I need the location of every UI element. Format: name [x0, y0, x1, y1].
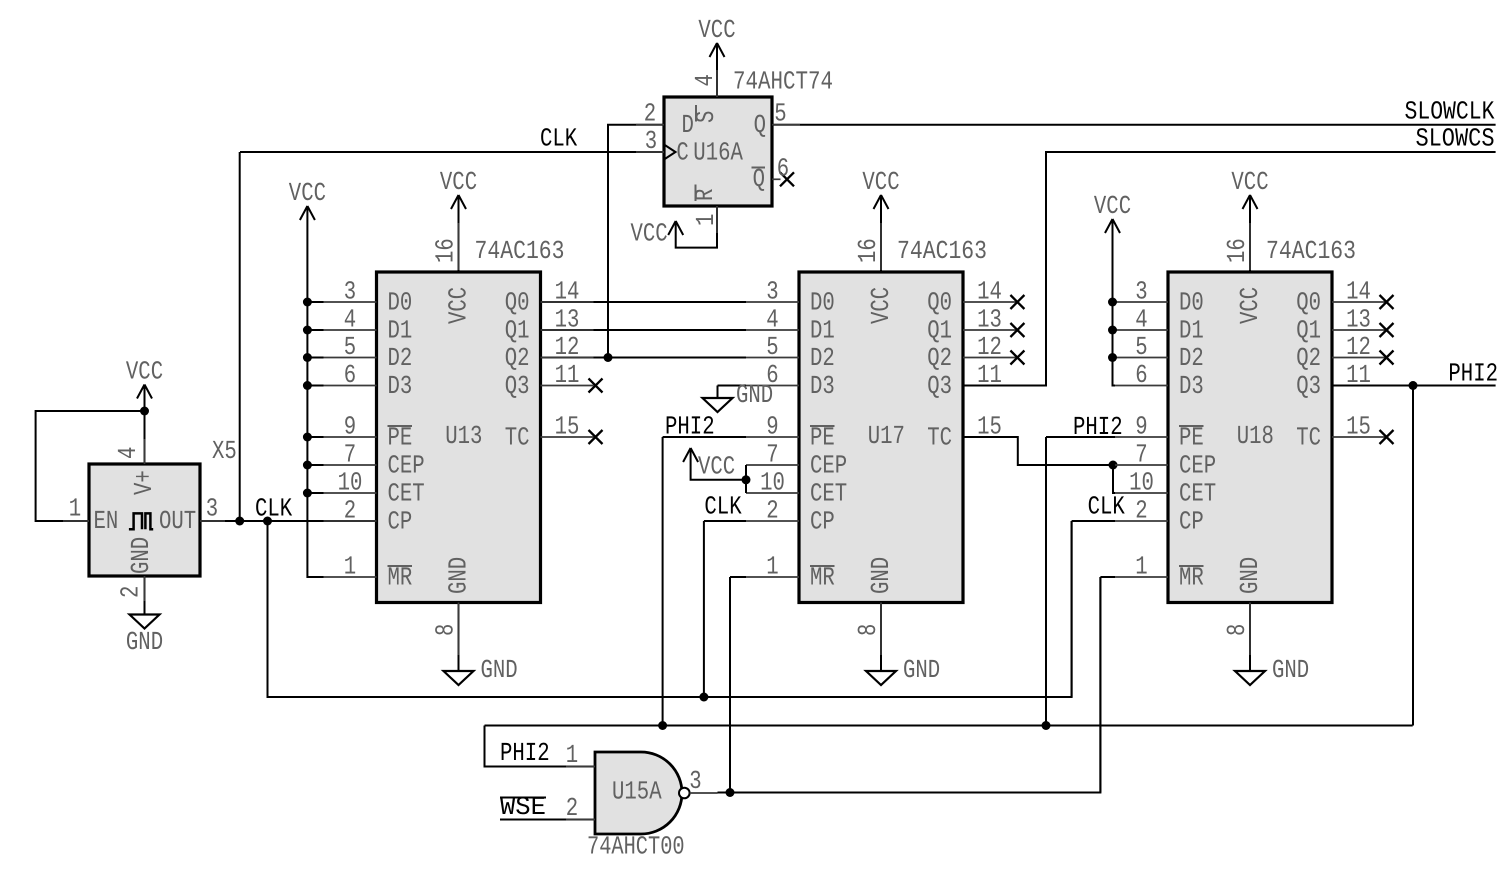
svg-text:SLOWCS: SLOWCS — [1415, 124, 1494, 154]
svg-text:6: 6 — [777, 153, 789, 183]
svg-text:Q2: Q2 — [505, 343, 530, 373]
svg-text:D1: D1 — [1179, 315, 1204, 345]
svg-text:4: 4 — [766, 305, 778, 335]
svg-text:CEP: CEP — [810, 450, 847, 480]
svg-text:6: 6 — [1135, 360, 1147, 390]
svg-text:VCC: VCC — [862, 167, 899, 197]
svg-text:TC: TC — [927, 422, 952, 452]
svg-text:CLK: CLK — [255, 494, 293, 524]
svg-text:74AHCT74: 74AHCT74 — [733, 67, 833, 97]
svg-text:Q0: Q0 — [505, 287, 530, 317]
svg-text:GND: GND — [481, 655, 518, 685]
svg-text:74AC163: 74AC163 — [475, 236, 565, 266]
svg-text:D3: D3 — [810, 371, 835, 401]
svg-text:D1: D1 — [810, 315, 835, 345]
svg-text:SLOWCLK: SLOWCLK — [1404, 97, 1494, 127]
svg-text:1: 1 — [344, 552, 356, 582]
svg-text:10: 10 — [1129, 468, 1154, 498]
svg-text:VCC: VCC — [444, 287, 474, 324]
svg-text:TC: TC — [1296, 422, 1321, 452]
svg-text:CP: CP — [810, 506, 835, 536]
svg-text:D2: D2 — [1179, 343, 1204, 373]
svg-text:Q1: Q1 — [1296, 315, 1321, 345]
svg-text:Q3: Q3 — [1296, 371, 1321, 401]
svg-text:GND: GND — [126, 537, 156, 574]
svg-text:1: 1 — [766, 552, 778, 582]
svg-text:5: 5 — [774, 99, 786, 129]
svg-text:16: 16 — [431, 238, 461, 263]
svg-text:2: 2 — [644, 99, 656, 129]
svg-text:D0: D0 — [810, 287, 835, 317]
svg-text:4: 4 — [1135, 305, 1147, 335]
svg-text:7: 7 — [766, 440, 778, 470]
svg-text:GND: GND — [444, 557, 474, 594]
svg-text:VCC: VCC — [126, 357, 163, 387]
svg-text:16: 16 — [853, 238, 883, 263]
svg-text:U15A: U15A — [612, 777, 662, 807]
svg-text:3: 3 — [1135, 277, 1147, 307]
svg-text:4: 4 — [344, 305, 356, 335]
svg-text:8: 8 — [1222, 624, 1252, 636]
svg-text:2: 2 — [344, 496, 356, 526]
svg-text:PHI2: PHI2 — [665, 412, 715, 442]
svg-text:Q0: Q0 — [927, 287, 952, 317]
svg-text:VCC: VCC — [1235, 287, 1265, 324]
svg-text:Q3: Q3 — [927, 371, 952, 401]
svg-text:Q: Q — [754, 110, 766, 140]
svg-text:3: 3 — [766, 277, 778, 307]
svg-text:8: 8 — [853, 624, 883, 636]
svg-text:CEP: CEP — [388, 450, 425, 480]
svg-text:1: 1 — [1135, 552, 1147, 582]
svg-text:6: 6 — [344, 360, 356, 390]
svg-text:2: 2 — [566, 793, 578, 823]
svg-text:C: C — [676, 137, 688, 167]
svg-text:74AHCT00: 74AHCT00 — [587, 832, 685, 862]
svg-text:GND: GND — [126, 627, 163, 657]
svg-text:VCC: VCC — [440, 167, 477, 197]
svg-text:74AC163: 74AC163 — [1266, 236, 1356, 266]
svg-text:V+: V+ — [129, 470, 159, 495]
svg-text:Q1: Q1 — [505, 315, 530, 345]
svg-text:D2: D2 — [810, 343, 835, 373]
svg-text:PHI2: PHI2 — [1448, 359, 1498, 389]
svg-text:2: 2 — [1135, 496, 1147, 526]
svg-text:OUT: OUT — [159, 506, 196, 536]
svg-text:4: 4 — [690, 74, 720, 86]
svg-text:D0: D0 — [388, 287, 413, 317]
svg-text:CLK: CLK — [540, 124, 578, 154]
svg-text:Q3: Q3 — [505, 371, 530, 401]
svg-text:X5: X5 — [212, 436, 237, 466]
svg-text:7: 7 — [1135, 440, 1147, 470]
svg-text:D3: D3 — [388, 371, 413, 401]
svg-text:4: 4 — [113, 447, 143, 459]
svg-text:2: 2 — [116, 586, 146, 598]
svg-text:D2: D2 — [388, 343, 413, 373]
svg-text:VCC: VCC — [698, 15, 735, 45]
svg-text:8: 8 — [431, 624, 461, 636]
svg-text:5: 5 — [1135, 332, 1147, 362]
svg-text:CLK: CLK — [704, 492, 742, 522]
svg-text:1: 1 — [566, 740, 578, 770]
svg-text:10: 10 — [760, 468, 785, 498]
svg-text:CET: CET — [810, 478, 847, 508]
svg-text:VCC: VCC — [866, 287, 896, 324]
svg-text:D0: D0 — [1179, 287, 1204, 317]
svg-text:GND: GND — [903, 655, 940, 685]
svg-text:9: 9 — [1135, 412, 1147, 442]
svg-text:GND: GND — [736, 380, 773, 410]
svg-text:CEP: CEP — [1179, 450, 1216, 480]
svg-text:CLK: CLK — [1088, 492, 1126, 522]
svg-text:VCC: VCC — [631, 219, 668, 249]
svg-text:D3: D3 — [1179, 371, 1204, 401]
svg-text:VCC: VCC — [1094, 191, 1131, 221]
svg-text:Q2: Q2 — [1296, 343, 1321, 373]
svg-text:3: 3 — [206, 494, 218, 524]
svg-text:5: 5 — [766, 332, 778, 362]
svg-text:5: 5 — [344, 332, 356, 362]
svg-text:10: 10 — [338, 468, 363, 498]
svg-text:CP: CP — [388, 506, 413, 536]
svg-text:CET: CET — [1179, 478, 1216, 508]
svg-text:9: 9 — [766, 412, 778, 442]
svg-text:U17: U17 — [868, 421, 905, 451]
svg-text:GND: GND — [1272, 655, 1309, 685]
svg-text:PHI2: PHI2 — [500, 738, 550, 768]
svg-text:3: 3 — [344, 277, 356, 307]
svg-text:1: 1 — [691, 214, 721, 226]
svg-text:VCC: VCC — [1231, 167, 1268, 197]
svg-text:VCC: VCC — [698, 452, 735, 482]
svg-text:2: 2 — [766, 496, 778, 526]
svg-text:1: 1 — [69, 494, 81, 524]
svg-text:U16A: U16A — [693, 137, 743, 167]
svg-text:Q2: Q2 — [927, 343, 952, 373]
svg-text:VCC: VCC — [289, 178, 326, 208]
svg-text:U13: U13 — [445, 421, 482, 451]
svg-text:U18: U18 — [1237, 421, 1274, 451]
svg-text:CP: CP — [1179, 506, 1204, 536]
svg-text:16: 16 — [1222, 238, 1252, 263]
svg-text:Q0: Q0 — [1296, 287, 1321, 317]
svg-text:3: 3 — [689, 766, 701, 796]
svg-text:7: 7 — [344, 440, 356, 470]
svg-text:GND: GND — [866, 557, 896, 594]
svg-text:GND: GND — [1235, 557, 1265, 594]
svg-text:3: 3 — [645, 126, 657, 156]
svg-text:TC: TC — [505, 422, 530, 452]
svg-text:CET: CET — [388, 478, 425, 508]
svg-text:9: 9 — [344, 412, 356, 442]
svg-text:EN: EN — [94, 506, 119, 536]
svg-text:D1: D1 — [388, 315, 413, 345]
svg-text:PHI2: PHI2 — [1073, 412, 1123, 442]
svg-text:74AC163: 74AC163 — [897, 236, 987, 266]
svg-text:Q1: Q1 — [927, 315, 952, 345]
